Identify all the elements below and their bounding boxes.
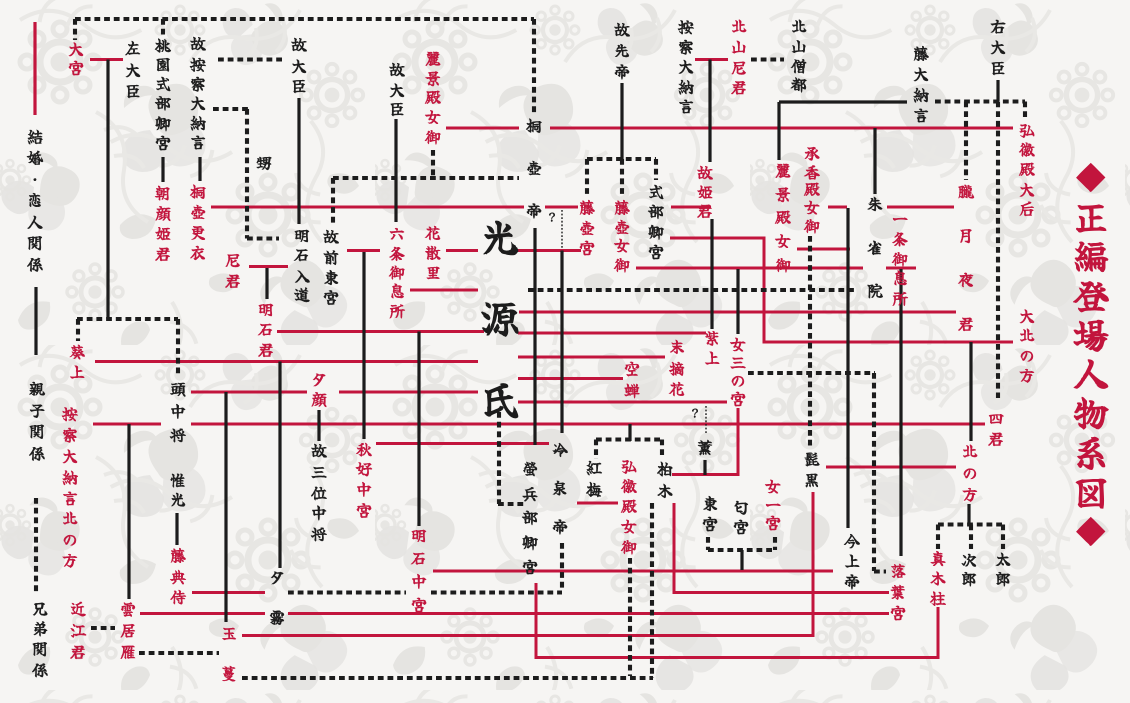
- black dashed sibling lines: [75, 17, 534, 21]
- black parent-child lines: [34, 287, 37, 355]
- red relationship lines: [90, 58, 123, 61]
